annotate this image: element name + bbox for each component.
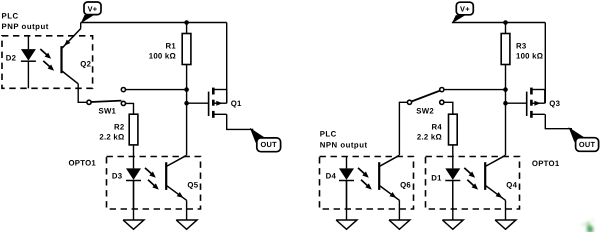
wire D4 cathode to ground bbox=[346, 181, 348, 220]
optocoupler package OPTO1 (left dashed box) bbox=[107, 157, 201, 210]
diode D4 (opto LED) bbox=[339, 157, 354, 210]
wire rail to R3 bbox=[505, 23, 507, 34]
svg-text:OPTO1: OPTO1 bbox=[68, 159, 96, 168]
svg-text:R1: R1 bbox=[166, 41, 177, 50]
ground (D1) bbox=[442, 220, 463, 229]
wire R3 to Q4 collector (gate bus right) bbox=[505, 65, 507, 156]
node junction gate wire (left) bbox=[184, 101, 189, 106]
light arrows D3 to Q5 bbox=[145, 168, 159, 190]
svg-text:D3: D3 bbox=[112, 172, 123, 181]
label SW2 bbox=[416, 107, 434, 116]
svg-text:Q4: Q4 bbox=[506, 181, 517, 190]
wire SW1 upper contact to gate node bbox=[126, 89, 187, 91]
wire R1 to Q5 collector (gate bus) bbox=[186, 65, 188, 156]
wire Q1 source to OUT bbox=[227, 114, 254, 129]
net flag OUT (right) bbox=[569, 127, 599, 151]
label R4 2.2 kOhm bbox=[417, 122, 443, 141]
label R3 100 kOhm bbox=[516, 41, 543, 60]
mosfet Q3 (P-channel) bbox=[527, 88, 545, 118]
node junction top rail / R1 (left) bbox=[184, 20, 189, 25]
wire top rail (left) bbox=[81, 22, 227, 24]
svg-text:2.2 kΩ: 2.2 kΩ bbox=[99, 133, 124, 142]
svg-text:Q6: Q6 bbox=[400, 181, 411, 190]
ground (Q6) bbox=[389, 220, 410, 229]
svg-text:PLC: PLC bbox=[320, 130, 337, 139]
resistor R3 bbox=[501, 34, 510, 65]
svg-text:V+: V+ bbox=[460, 5, 470, 14]
node junction top rail / R3 bbox=[503, 20, 508, 25]
wire Q2 collector to SW1 bbox=[78, 84, 87, 103]
svg-text:PLC: PLC bbox=[2, 12, 19, 21]
wire R2 to D3 bbox=[133, 145, 135, 157]
label SW1 bbox=[99, 107, 117, 116]
light arrows D2 to Q2 bbox=[40, 49, 54, 71]
wire Q4 emitter to ground bbox=[505, 200, 507, 220]
svg-text:Q1: Q1 bbox=[231, 99, 242, 108]
wire Q3 source to OUT bbox=[545, 114, 572, 128]
wire Q5 emitter to ground bbox=[186, 200, 188, 220]
optocoupler package OPTO1 (right dashed box) bbox=[426, 157, 520, 210]
label D1 bbox=[431, 174, 442, 183]
resistor R2 bbox=[129, 114, 138, 145]
label D4 bbox=[326, 172, 337, 181]
wire rail to R1 bbox=[186, 23, 188, 34]
svg-text:OPTO1: OPTO1 bbox=[532, 159, 560, 168]
wire rail to Q3 drain bbox=[544, 23, 546, 104]
svg-text:D1: D1 bbox=[431, 174, 442, 183]
text PLC NPN output bbox=[320, 130, 368, 150]
diode D1 (opto LED) bbox=[445, 157, 460, 210]
svg-text:SW2: SW2 bbox=[416, 107, 434, 116]
resistor R4 bbox=[449, 114, 458, 145]
wire SW2 lower contact to R4 bbox=[444, 102, 453, 114]
svg-text:NPN output: NPN output bbox=[320, 140, 368, 149]
diode D2 (opto LED) bbox=[21, 36, 36, 89]
transistor Q6 (NPN photo) bbox=[379, 155, 399, 200]
wire Q6 emitter to ground bbox=[398, 200, 400, 220]
label Q4 bbox=[506, 181, 517, 190]
resistor R1 bbox=[182, 34, 191, 65]
label Q6 bbox=[400, 181, 411, 190]
svg-text:100 kΩ: 100 kΩ bbox=[149, 51, 176, 60]
wire SW2 common to Q6 collector bbox=[399, 102, 407, 155]
mosfet Q1 (P-channel) bbox=[209, 88, 227, 118]
net flag OUT (left) bbox=[250, 128, 281, 152]
label R1 100 kOhm bbox=[149, 41, 177, 60]
switch SW2 bbox=[407, 88, 444, 105]
switch SW1 bbox=[87, 88, 126, 106]
ground (Q5) bbox=[176, 220, 197, 229]
svg-text:Q5: Q5 bbox=[187, 181, 198, 190]
diode D3 (opto LED) bbox=[126, 157, 141, 210]
text PLC PNP output bbox=[2, 12, 49, 31]
wire D3 cathode to ground bbox=[133, 181, 135, 220]
svg-text:Q2: Q2 bbox=[80, 60, 91, 69]
net flag V+ (left) bbox=[81, 2, 101, 23]
svg-text:R2: R2 bbox=[114, 122, 125, 131]
svg-text:SW1: SW1 bbox=[99, 107, 117, 116]
svg-text:R3: R3 bbox=[516, 41, 527, 50]
svg-text:D4: D4 bbox=[326, 172, 337, 181]
label D3 bbox=[112, 172, 123, 181]
label D2 bbox=[6, 53, 17, 62]
wire gate Q3 bbox=[506, 102, 527, 104]
svg-text:R4: R4 bbox=[432, 122, 443, 131]
wire V+ to Q2 emitter bbox=[80, 23, 82, 29]
label R2 2.2 kOhm bbox=[99, 122, 125, 141]
label Q2 bbox=[80, 60, 91, 69]
wire R4 to D1 bbox=[452, 145, 454, 157]
node junction gate bus upper (left) bbox=[184, 87, 189, 92]
optocoupler package PLC PNP (dashed box) bbox=[2, 36, 93, 89]
transistor Q4 (NPN photo) bbox=[485, 155, 505, 200]
svg-text:PNP output: PNP output bbox=[2, 22, 49, 31]
label Q5 bbox=[187, 181, 198, 190]
label OPTO1 (right) bbox=[532, 159, 560, 168]
svg-text:OUT: OUT bbox=[579, 140, 596, 149]
green smudge mark bbox=[582, 219, 594, 232]
svg-text:V+: V+ bbox=[88, 5, 98, 14]
svg-text:2.2 kΩ: 2.2 kΩ bbox=[417, 133, 442, 142]
net flag V+ (right) bbox=[452, 2, 473, 23]
label OPTO1 (left) bbox=[68, 159, 96, 168]
transistor Q5 (NPN photo) bbox=[166, 155, 186, 200]
wire gate Q1 bbox=[187, 102, 209, 104]
svg-text:D2: D2 bbox=[6, 53, 17, 62]
light arrows D1 to Q4 bbox=[464, 168, 478, 190]
wire SW1 lower contact to R2 bbox=[126, 103, 134, 114]
svg-text:Q3: Q3 bbox=[549, 99, 560, 108]
svg-text:100 kΩ: 100 kΩ bbox=[516, 51, 543, 60]
transistor Q2 (PNP photo) bbox=[62, 29, 81, 84]
label Q1 bbox=[231, 99, 242, 108]
wire rail to Q1 drain bbox=[226, 23, 228, 104]
label Q3 bbox=[549, 99, 560, 108]
wire D1 cathode to ground bbox=[452, 181, 454, 220]
wire SW2 upper contact to bus bbox=[444, 89, 506, 91]
ground (Q4) bbox=[495, 220, 516, 229]
optocoupler package PLC NPN (dashed box) bbox=[320, 157, 414, 210]
ground (D3) bbox=[123, 220, 144, 229]
node junction bus upper (right) bbox=[503, 87, 508, 92]
ground (D4) bbox=[336, 220, 357, 229]
wire top rail (right) bbox=[452, 22, 545, 24]
light arrows D4 to Q6 bbox=[358, 168, 372, 190]
svg-text:OUT: OUT bbox=[260, 140, 277, 149]
node junction gate wire (right) bbox=[503, 101, 508, 106]
